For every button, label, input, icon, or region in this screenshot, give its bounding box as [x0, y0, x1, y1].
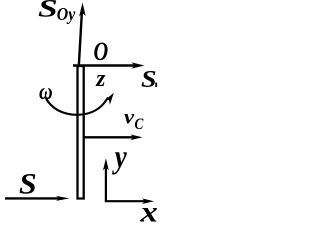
velocity arrow v_C (center of mass) [85, 135, 143, 141]
svg-text:O: O [94, 37, 109, 66]
svg-text:S: S [19, 166, 37, 200]
svg-text:x: x [139, 195, 157, 226]
rod (thin vertical bar, pivot at O) [78, 66, 84, 199]
label S (S_Ox, with clipped subscript tick) [141, 66, 157, 93]
omega rotation arc [46, 93, 114, 115]
x axis (coordinate frame) [105, 198, 154, 204]
svg-text:C: C [135, 116, 144, 133]
label z (axis along rod) [95, 65, 106, 92]
label omega (angular velocity) [39, 78, 53, 105]
svg-text:S: S [141, 66, 157, 93]
label O (pivot point) [94, 37, 109, 66]
svg-text:Oy: Oy [57, 4, 76, 24]
label v_C [124, 106, 144, 134]
svg-text:ω: ω [39, 78, 53, 105]
y axis (coordinate frame) [103, 158, 109, 201]
label y [112, 139, 127, 175]
svg-text:y: y [112, 139, 127, 175]
reaction arrow S_Oy (vertical up from O) [79, 3, 86, 65]
label S (bottom force) [19, 166, 37, 200]
label S_Oy [38, 0, 76, 24]
force arrow S (at lower end) [5, 196, 70, 201]
svg-text:S: S [38, 0, 58, 22]
axis arrow S_Ox (horizontal through O) [73, 62, 145, 68]
svg-text:z: z [95, 65, 106, 92]
svg-text:v: v [124, 106, 135, 129]
label x [139, 195, 157, 228]
